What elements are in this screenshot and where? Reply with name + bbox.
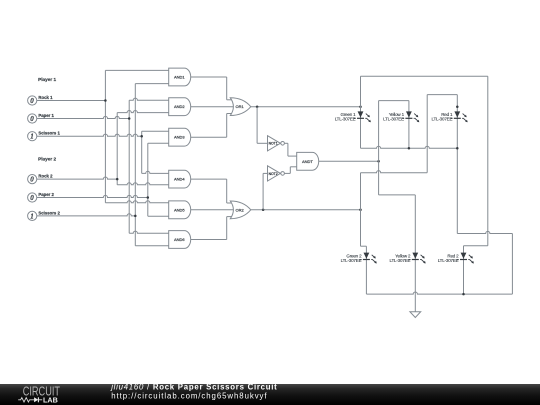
- svg-text:1: 1: [30, 212, 34, 220]
- svg-text:0: 0: [30, 97, 34, 105]
- svg-text:LTL-307EE: LTL-307EE: [389, 258, 410, 263]
- svg-text:LTL-307EE: LTL-307EE: [438, 258, 459, 263]
- svg-text:0: 0: [30, 176, 34, 184]
- svg-text:Scissors 2: Scissors 2: [38, 210, 60, 215]
- svg-text:Rock 1: Rock 1: [38, 95, 53, 100]
- svg-text:AND3: AND3: [174, 135, 185, 140]
- svg-text:Paper 1: Paper 1: [38, 113, 54, 118]
- svg-text:Scissors 1: Scissors 1: [38, 131, 60, 136]
- svg-text:LAB: LAB: [43, 395, 58, 404]
- svg-text:Paper 2: Paper 2: [38, 192, 54, 197]
- svg-text:AND4: AND4: [174, 177, 185, 182]
- svg-text:0: 0: [30, 115, 34, 123]
- svg-text:Player 1: Player 1: [38, 77, 56, 82]
- svg-text:AND2: AND2: [174, 104, 185, 109]
- svg-text:0: 0: [30, 194, 34, 202]
- svg-text:LTL-307EE: LTL-307EE: [335, 117, 356, 122]
- svg-text:NOT2: NOT2: [269, 172, 278, 176]
- svg-text:LTL-307EE: LTL-307EE: [431, 117, 452, 122]
- svg-text:LTL-307EE: LTL-307EE: [341, 258, 362, 263]
- svg-text:Rock 2: Rock 2: [38, 174, 53, 179]
- svg-text:http://circuitlab.com/chg65wh8: http://circuitlab.com/chg65wh8ukvyf: [111, 391, 267, 400]
- svg-text:OR1: OR1: [235, 104, 244, 109]
- svg-text:1: 1: [30, 133, 34, 141]
- svg-text:NOT1: NOT1: [269, 142, 278, 146]
- svg-text:jliu4160 / Rock Paper Scissors: jliu4160 / Rock Paper Scissors Circuit: [110, 383, 277, 392]
- svg-text:AND5: AND5: [174, 207, 185, 212]
- svg-text:ANDT: ANDT: [302, 159, 313, 164]
- svg-text:LTL-307EE: LTL-307EE: [383, 117, 404, 122]
- svg-text:AND1: AND1: [174, 75, 185, 80]
- svg-text:OR2: OR2: [235, 207, 244, 212]
- svg-text:Player 2: Player 2: [38, 156, 56, 161]
- svg-text:AND6: AND6: [174, 237, 185, 242]
